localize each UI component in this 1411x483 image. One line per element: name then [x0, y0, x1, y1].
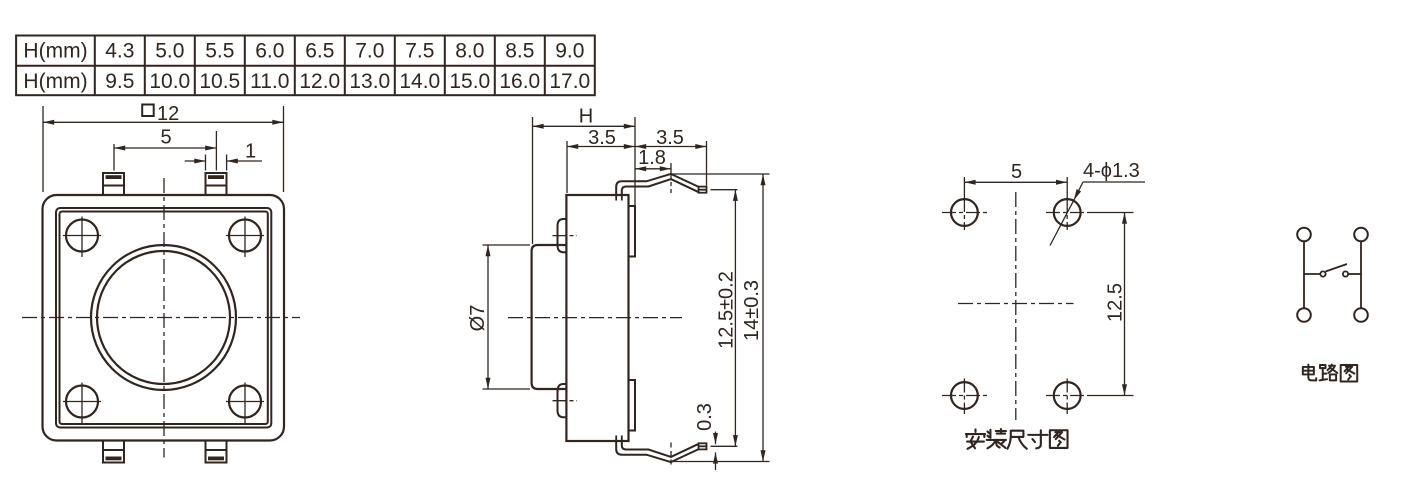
svg-text:7.5: 7.5 [405, 40, 434, 63]
svg-text:7.0: 7.0 [355, 40, 384, 63]
svg-text:1.8: 1.8 [638, 147, 666, 169]
svg-text:4-ϕ1.3: 4-ϕ1.3 [1083, 160, 1140, 182]
svg-text:14.0: 14.0 [399, 70, 440, 93]
svg-text:15.0: 15.0 [449, 70, 490, 93]
svg-text:8.0: 8.0 [455, 40, 484, 63]
svg-text:5: 5 [1011, 161, 1022, 183]
svg-text:9.5: 9.5 [105, 70, 134, 93]
svg-text:4.3: 4.3 [105, 40, 134, 63]
svg-text:3.5: 3.5 [656, 127, 684, 149]
svg-text:6.0: 6.0 [255, 40, 284, 63]
svg-text:11.0: 11.0 [250, 70, 289, 93]
svg-text:6.5: 6.5 [305, 40, 334, 63]
svg-text:16.0: 16.0 [499, 70, 540, 93]
svg-text:H(mm): H(mm) [23, 70, 87, 93]
svg-text:5.5: 5.5 [205, 40, 234, 63]
svg-text:10.0: 10.0 [149, 70, 190, 93]
svg-text:13.0: 13.0 [349, 70, 390, 93]
svg-text:1: 1 [245, 141, 256, 163]
svg-text:H: H [579, 106, 593, 128]
svg-text:12.0: 12.0 [299, 70, 340, 93]
svg-text:3.5: 3.5 [588, 127, 616, 149]
svg-text:5.0: 5.0 [155, 40, 184, 63]
svg-text:17.0: 17.0 [549, 70, 590, 93]
svg-text:14±0.3: 14±0.3 [741, 280, 763, 341]
svg-text:H(mm): H(mm) [23, 40, 87, 63]
svg-text:9.0: 9.0 [555, 40, 584, 63]
svg-text:10.5: 10.5 [199, 70, 240, 93]
svg-text:12.5±0.2: 12.5±0.2 [716, 271, 738, 349]
svg-text:Ø7: Ø7 [467, 305, 489, 332]
svg-text:5: 5 [160, 127, 171, 149]
svg-text:8.5: 8.5 [505, 40, 534, 63]
svg-text:0.3: 0.3 [694, 403, 716, 431]
svg-text:12.5: 12.5 [1105, 283, 1127, 322]
